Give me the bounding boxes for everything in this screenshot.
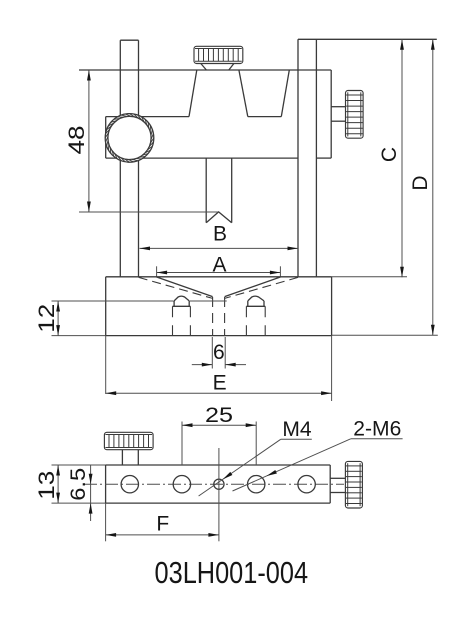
dimension line C [400,39,404,277]
top knurled knob [194,46,243,63]
body top edge with 48-dim extension [79,69,331,71]
25-dim extension lines [182,422,256,466]
svg-text:12: 12 [34,304,59,333]
label C [378,147,401,162]
dimension line A [157,271,281,275]
svg-text:6.5: 6.5 [67,468,90,501]
label 13 [34,471,59,500]
svg-text:B: B [213,223,227,246]
label F [156,513,169,536]
12-dim extension line at slot bottom [52,300,227,302]
bar left edge with F extension [105,465,107,541]
svg-text:F: F [156,513,169,536]
svg-text:13: 13 [34,471,59,500]
label B [213,223,227,246]
V-groove right dashed slant [225,277,298,298]
dimension line 6.5 [89,465,93,521]
hole 1 [121,476,138,493]
base top edge with C extension [106,276,407,278]
caption 03LH001-004 [155,555,309,590]
right post with C/D top extension [298,39,437,276]
label 6.5 [67,468,90,501]
left pocket slant [189,70,197,117]
base right edge with E extension [331,277,333,401]
bar bottom edge with 13 extension [52,502,331,504]
svg-text:48: 48 [64,126,89,155]
dimension line 12 [56,301,60,336]
svg-text:2-M6: 2-M6 [353,418,401,441]
label 25 [205,404,233,427]
dimension line 25 [182,423,256,427]
svg-text:03LH001-004: 03LH001-004 [155,555,309,590]
base bottom edge with 12 and D extensions [52,334,438,336]
small hole vertical centerline [218,448,220,541]
bar right knurled knob [345,461,362,508]
6-dim extension lines [212,337,225,369]
right knob stem [331,107,345,122]
top knob neck [201,64,234,71]
dimension line D [431,39,435,335]
housing top and left pocket bottom edge [106,116,189,118]
right pocket trapezoid [239,70,289,117]
hole 4 [248,476,265,493]
knob housing left edge [105,117,107,159]
label 48 [64,126,89,155]
48-dim bottom extension line [79,211,219,213]
hole 3 [214,479,224,489]
right pin [246,296,265,335]
left post [120,40,138,277]
label 2-M6 [353,418,401,441]
V-groove left solid slant [157,277,213,297]
right knurled knob [346,91,364,139]
scriber pointer [206,158,232,223]
bar right edge [329,465,331,503]
center slot dashed lines [213,297,225,336]
body right edge [330,70,332,158]
hole 2 [173,476,190,493]
label 6 [213,341,225,364]
label M4 [282,418,311,441]
dimension line 13 [56,465,60,503]
body bottom edge [106,157,332,159]
svg-text:C: C [378,147,401,162]
knurled wheel circle [105,114,154,163]
label 12 [34,304,59,333]
svg-text:M4: M4 [282,418,311,441]
V-groove right solid slant [225,277,281,297]
svg-text:25: 25 [205,404,233,427]
base left edge with E extension [105,277,107,394]
label D [409,175,432,190]
label E [213,371,227,394]
dimension line 48 [87,70,91,212]
M4 leader line [199,439,312,496]
bar knob neck [122,450,138,465]
dimension line E [106,391,332,395]
bar top edge with 13 extension [52,464,331,466]
bar centerline [84,483,344,485]
V-groove left dashed slant [139,277,213,298]
bar knurled knob [104,432,153,449]
A extension ticks [157,266,281,277]
dimension line B [140,247,299,251]
dimension line 6 [192,363,246,367]
left pin [173,296,191,335]
svg-text:E: E [213,371,227,394]
hole 5 [298,476,315,493]
svg-text:6: 6 [213,341,225,364]
svg-text:D: D [409,175,432,190]
bar right knob stem [330,478,345,492]
dimension line F [106,533,219,537]
svg-text:A: A [212,253,226,276]
2-M6 leader line [233,439,403,491]
label A [212,253,226,276]
